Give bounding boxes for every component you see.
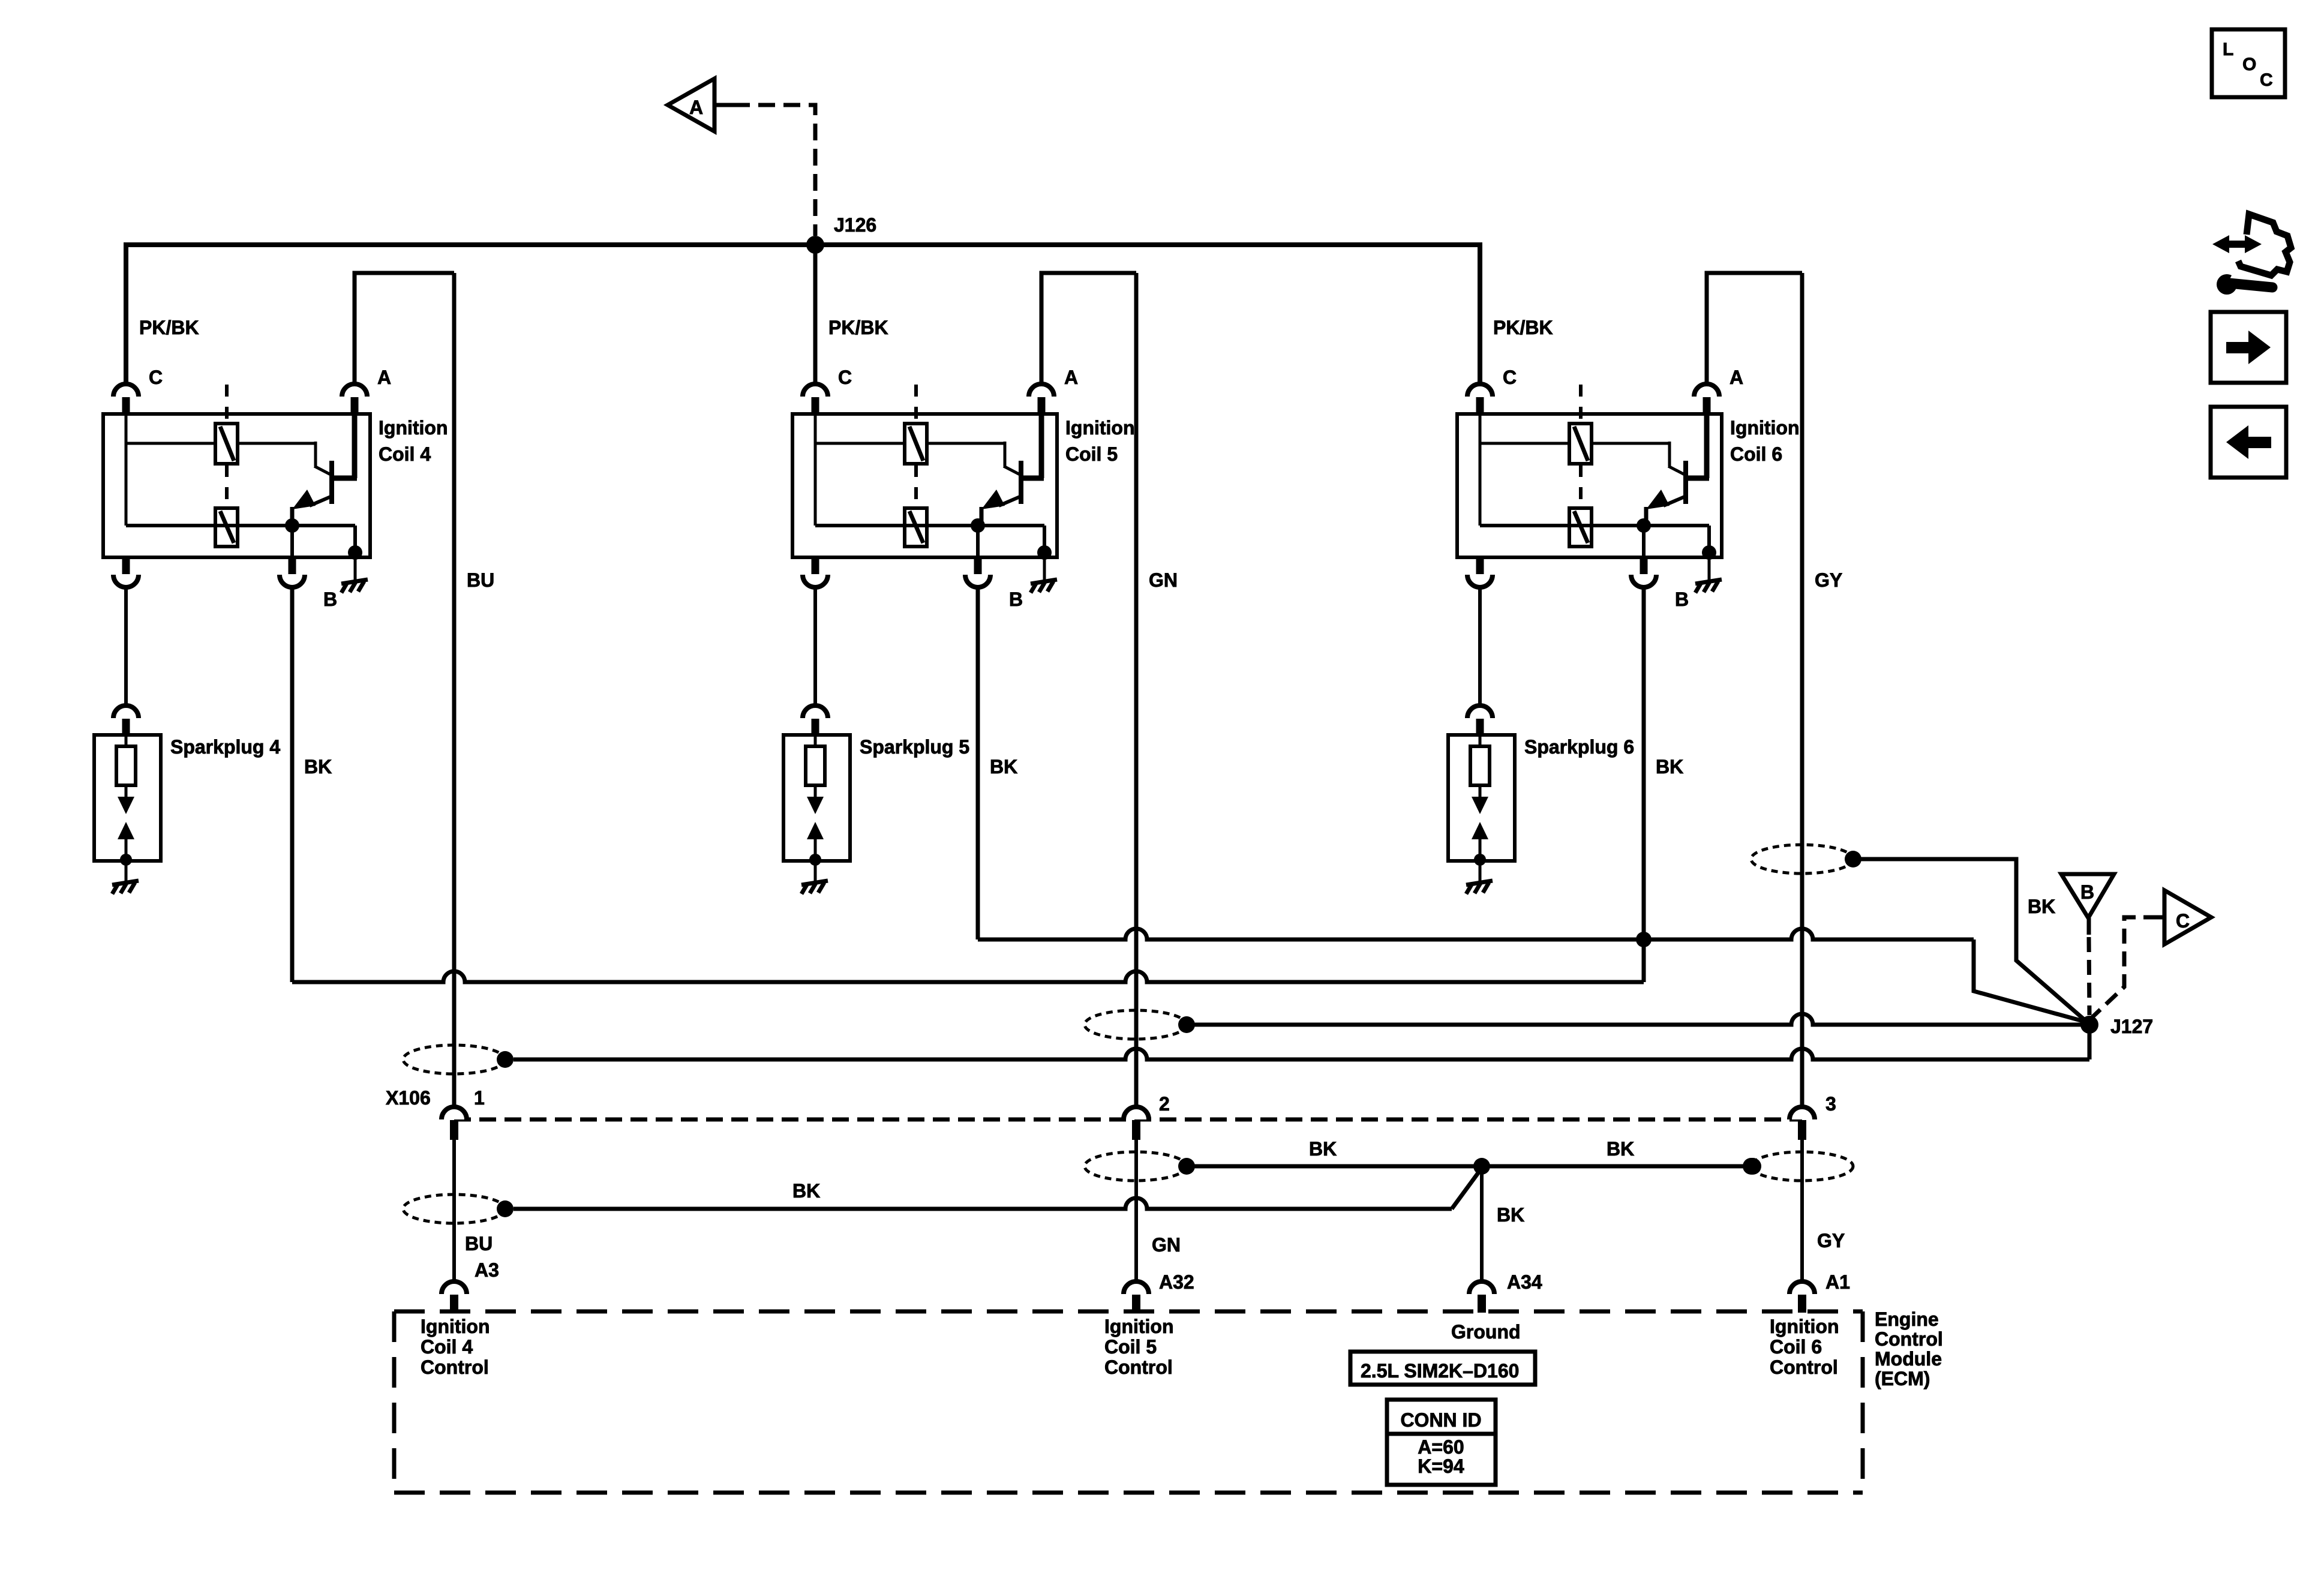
node coil 5 emitter junction (971, 518, 985, 533)
wire coil 5 A terminal loop (1041, 273, 1136, 383)
connector X106 pin 1 (442, 1107, 467, 1119)
wire ignition voltage bus PK/BK (126, 245, 1480, 383)
sparkplug 6 box (1448, 735, 1515, 861)
ECM type box 2.5L SIM2K-D160 (1350, 1352, 1535, 1385)
svg-text:1: 1 (474, 1087, 485, 1109)
ECM pin A34 (1469, 1281, 1494, 1294)
icon wrench (2217, 269, 2272, 295)
svg-text:GN: GN (1149, 569, 1178, 591)
node BK tee (1473, 1158, 1490, 1175)
svg-text:Coil 4: Coil 4 (379, 443, 431, 465)
svg-text:BK: BK (1607, 1138, 1634, 1160)
node coil 5 ground junction (1037, 545, 1052, 560)
ECM pin A1 (1789, 1281, 1815, 1294)
svg-text:Control: Control (1770, 1356, 1838, 1378)
off-page reference triangle A (668, 79, 714, 131)
svg-text:B: B (1009, 589, 1023, 610)
coil 4 primary winding (215, 424, 238, 464)
icon vehicle outline (2238, 214, 2291, 275)
svg-text:A3: A3 (475, 1259, 499, 1281)
wire coil 4 to sparkplug (124, 589, 128, 704)
svg-text:Coil 5: Coil 5 (1065, 443, 1118, 465)
wire BU splice to J127 (514, 1049, 2089, 1059)
CONN ID table (1387, 1400, 1496, 1485)
ground coil 6 (1708, 557, 1711, 581)
splice on GY below X106 (1751, 1152, 1853, 1181)
wire BU vertical (452, 273, 457, 1106)
node J127 (2080, 1016, 2098, 1034)
svg-text:C: C (2176, 910, 2190, 932)
ground sparkplug 5 (814, 861, 817, 882)
svg-text:Coil 6: Coil 6 (1730, 443, 1782, 465)
svg-text:BK: BK (2028, 896, 2055, 917)
ECM pin A3 (442, 1281, 467, 1294)
wire coil 6 to sparkplug (1478, 589, 1482, 704)
icon forward arrow box (2211, 312, 2286, 383)
svg-text:J126: J126 (834, 214, 876, 236)
off-page reference triangle C (2164, 890, 2211, 944)
svg-text:A34: A34 (1507, 1271, 1542, 1293)
svg-text:B: B (1675, 589, 1689, 610)
splice on GN below X106 (1085, 1152, 1187, 1181)
svg-text:BK: BK (304, 756, 332, 778)
svg-text:Control: Control (1104, 1356, 1173, 1378)
svg-text:Ignition: Ignition (1065, 417, 1135, 439)
coil 6 internal wiring (1480, 414, 1709, 553)
svg-text:2: 2 (1159, 1093, 1170, 1115)
svg-text:A32: A32 (1159, 1271, 1194, 1293)
connector X106 pin 3 (1789, 1107, 1815, 1119)
svg-text:Engine: Engine (1875, 1308, 1939, 1330)
svg-text:BK: BK (1656, 756, 1683, 778)
node J126 (806, 236, 824, 254)
svg-text:C: C (1503, 367, 1517, 388)
transistor driver coil 6 (1646, 414, 1709, 526)
svg-text:J127: J127 (2110, 1016, 2153, 1037)
svg-text:C: C (2260, 70, 2273, 90)
ignition coil 5 terminal C (803, 384, 828, 397)
svg-text:GN: GN (1152, 1234, 1181, 1256)
svg-text:L: L (2223, 40, 2233, 59)
ECM pin A32 (1124, 1281, 1149, 1294)
node coil 4 emitter junction (285, 518, 299, 533)
svg-text:X106: X106 (386, 1087, 431, 1109)
svg-text:GY: GY (1815, 569, 1842, 591)
coil 5 bottom-left terminal (812, 557, 819, 574)
sparkplug 5 resistor (814, 735, 817, 746)
wire dashed to reference A (714, 103, 733, 107)
svg-text:Control: Control (421, 1356, 489, 1378)
node sparkplug 4 shell (120, 854, 132, 866)
svg-text:BK: BK (990, 756, 1017, 778)
svg-text:PK/BK: PK/BK (139, 317, 199, 338)
svg-text:C: C (149, 367, 163, 388)
icon data link connector arrow (2212, 235, 2262, 253)
wire GN splice to J127 (1194, 1014, 2089, 1025)
splice on GN wire at X106 (1085, 1010, 1187, 1039)
wire dashed J127 to C (2089, 917, 2151, 1020)
wire X106 pin 1 to ECM (452, 1140, 456, 1281)
coil 5 internal wiring (815, 414, 1044, 553)
svg-text:PK/BK: PK/BK (828, 317, 888, 338)
svg-text:BK: BK (1309, 1138, 1337, 1160)
coil 5 secondary winding (905, 508, 927, 547)
icon back arrow box (2211, 407, 2286, 478)
coil 4 bottom-left terminal (122, 557, 130, 574)
svg-text:A1: A1 (1825, 1271, 1850, 1293)
wire coil 6 A terminal loop (1707, 273, 1802, 383)
coil 6 core dashed link (1579, 385, 1583, 422)
svg-text:(ECM): (ECM) (1875, 1368, 1930, 1389)
svg-text:BU: BU (465, 1233, 493, 1254)
svg-text:BU: BU (467, 569, 494, 591)
splice on BU below X106 (403, 1194, 505, 1223)
svg-text:Sparkplug 5: Sparkplug 5 (860, 736, 969, 758)
ground coil 5 (1043, 557, 1046, 581)
svg-text:Ignition: Ignition (421, 1316, 490, 1337)
node coil 6 ground junction (1702, 545, 1716, 560)
wire coil5 B BK run (976, 589, 980, 939)
wire dashed J127 to B (2087, 918, 2091, 935)
coil 5 terminal B (976, 526, 980, 557)
sparkplug 4 connector (113, 706, 139, 718)
ignition coil 6 box (1457, 414, 1722, 557)
sparkplug 5 gap (814, 785, 817, 798)
svg-text:A=60: A=60 (1418, 1436, 1464, 1458)
coil 4 secondary winding (215, 508, 238, 547)
connector X106 pin 2 (1124, 1107, 1149, 1119)
svg-text:Coil 6: Coil 6 (1770, 1336, 1822, 1358)
svg-text:Ignition: Ignition (379, 417, 448, 439)
svg-text:Coil 5: Coil 5 (1104, 1336, 1157, 1358)
svg-text:GY: GY (1817, 1230, 1845, 1251)
svg-text:A: A (1730, 367, 1743, 388)
svg-text:Ignition: Ignition (1730, 417, 1800, 439)
svg-text:Ground: Ground (1451, 1321, 1521, 1343)
svg-text:B: B (2080, 881, 2094, 903)
wire coil 4 A terminal loop (355, 273, 454, 383)
svg-text:Sparkplug 4: Sparkplug 4 (170, 736, 280, 758)
ECM dashed box (394, 1311, 1863, 1493)
ignition coil 5 box (792, 414, 1057, 557)
node coil 4 ground junction (348, 545, 362, 560)
coil 5 primary winding (905, 424, 927, 464)
sparkplug 4 box (94, 735, 161, 861)
svg-text:A: A (377, 367, 391, 388)
svg-text:B: B (323, 589, 337, 610)
svg-text:Coil 4: Coil 4 (421, 1336, 473, 1358)
coil 6 secondary winding (1569, 508, 1592, 547)
coil 6 bottom-left terminal (1476, 557, 1484, 574)
coil 6 terminal B (1642, 526, 1646, 557)
wire GY splice to J127 BK (1853, 859, 2089, 1024)
svg-text:3: 3 (1825, 1093, 1836, 1115)
svg-text:Ignition: Ignition (1770, 1316, 1839, 1337)
ignition coil 4 terminal C (113, 384, 139, 397)
ignition coil 6 terminal C (1467, 384, 1493, 397)
svg-text:K=94: K=94 (1418, 1455, 1464, 1477)
svg-text:CONN ID: CONN ID (1400, 1409, 1481, 1431)
svg-text:PK/BK: PK/BK (1493, 317, 1553, 338)
svg-text:Control: Control (1875, 1328, 1943, 1350)
svg-text:O: O (2242, 55, 2256, 74)
svg-text:BK: BK (792, 1180, 820, 1202)
svg-text:Sparkplug 6: Sparkplug 6 (1524, 736, 1634, 758)
svg-text:Ignition: Ignition (1104, 1316, 1174, 1337)
splice on BU wire at X106 (403, 1045, 505, 1074)
sparkplug 6 connector (1467, 706, 1493, 718)
ignition coil 4 terminal A (342, 384, 367, 397)
wire coil4 B BK run (290, 589, 295, 982)
wire coil5 feed from J126 (813, 245, 818, 383)
wire coil6 B BK run (1642, 589, 1646, 939)
svg-text:C: C (838, 367, 852, 388)
off-page reference triangle B (2061, 874, 2114, 918)
splice on GY wire (1751, 845, 1853, 873)
sparkplug 5 box (783, 735, 850, 861)
node sparkplug 5 shell (809, 854, 821, 866)
ignition coil 5 terminal A (1029, 384, 1054, 397)
sparkplug 6 resistor (1479, 735, 1482, 746)
coil 4 core dashed link (225, 385, 229, 422)
wire X106 pin 2 to ECM (1134, 1140, 1138, 1281)
svg-text:A: A (1064, 367, 1078, 388)
ignition coil 4 box (103, 414, 370, 557)
LOC legend box (2212, 29, 2285, 97)
ignition coil 6 terminal A (1694, 384, 1719, 397)
coil 4 internal wiring (126, 414, 355, 553)
ground sparkplug 6 (1479, 861, 1482, 882)
sparkplug 4 resistor (125, 735, 128, 746)
wire X106 pin 3 to ECM (1800, 1140, 1804, 1281)
wire BK drop to A34 (1480, 1166, 1484, 1281)
coil 5 core dashed link (914, 385, 918, 422)
svg-text:A: A (689, 97, 703, 118)
ground sparkplug 4 (125, 861, 128, 882)
svg-text:BK: BK (1497, 1204, 1524, 1226)
node sparkplug 6 shell (1474, 854, 1486, 866)
transistor driver coil 5 (981, 414, 1044, 526)
svg-text:Module: Module (1875, 1348, 1942, 1370)
ground coil 4 (354, 557, 357, 581)
node coil 6 emitter junction (1637, 518, 1651, 533)
sparkplug 6 gap (1479, 785, 1482, 798)
svg-text:2.5L SIM2K–D160: 2.5L SIM2K–D160 (1361, 1360, 1519, 1382)
coil 6 primary winding (1569, 424, 1592, 464)
node BK junction (1636, 932, 1652, 947)
sparkplug 4 gap (125, 785, 128, 798)
wire BU splice BK run to tee (514, 1198, 1452, 1209)
wire BK splice row to ground pin (1187, 1164, 1751, 1169)
transistor driver coil 4 (292, 414, 357, 526)
wire GN vertical (1134, 273, 1139, 1106)
wire GY vertical (1800, 273, 1804, 1106)
connector X106 dashed line (454, 1118, 1802, 1122)
wire coil 5 to sparkplug (813, 589, 817, 704)
sparkplug 5 connector (803, 706, 828, 718)
coil 4 terminal B (290, 526, 294, 557)
